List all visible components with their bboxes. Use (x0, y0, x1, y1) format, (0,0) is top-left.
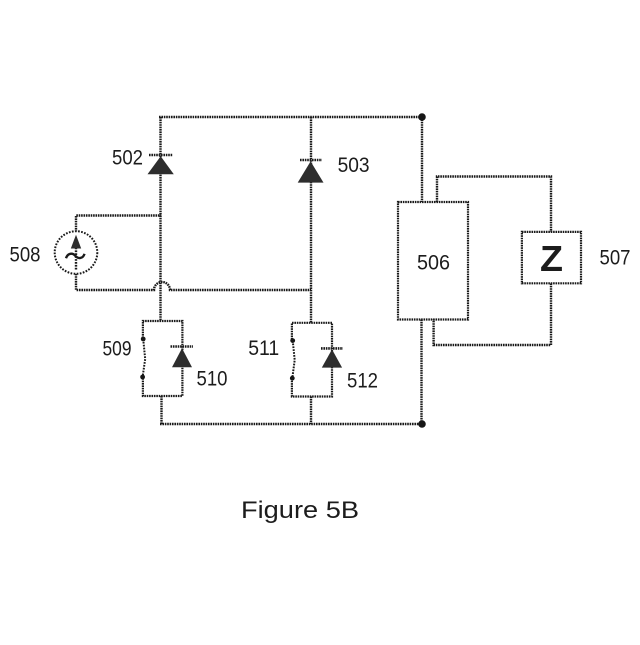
impedance block 507 box (522, 232, 581, 283)
wire right branch lower (box 511 to bottom rail) (310, 397, 312, 425)
diode D510 cathode bar (171, 345, 194, 348)
wire source top (circle top to left branch) (76, 216, 161, 233)
svg-text:Figure 5B: Figure 5B (241, 497, 359, 524)
wire load branch bottom (box 506 to bottom rail) (420, 320, 422, 425)
svg-text:503: 503 (338, 153, 370, 177)
svg-text:512: 512 (347, 369, 378, 393)
source arrow shaft (75, 246, 77, 270)
wire source bottom with hop over left branch (76, 274, 311, 290)
diode D512 triangle (322, 349, 342, 367)
switch S511 lever (292, 341, 294, 379)
diode D503 cathode bar (300, 159, 322, 162)
svg-text:509: 509 (103, 337, 132, 361)
wire load branch top (junction to box 506) (421, 117, 423, 202)
wire bottom rail (160, 423, 422, 425)
svg-text:508: 508 (10, 243, 41, 267)
diode D503 triangle (298, 161, 324, 182)
switch S509 top contact (141, 337, 146, 342)
switch module S509 box (143, 321, 183, 396)
switch S511 bottom contact (290, 376, 295, 381)
diode D510 triangle (172, 348, 192, 367)
switch S511 top contact (290, 338, 295, 343)
wire 507 loop lower (box 507 to 506 bottom) (434, 283, 551, 345)
wire right branch vertical (rail to switch box 511) (310, 117, 312, 323)
svg-text:502: 502 (112, 146, 143, 170)
wire top rail (159, 116, 422, 118)
wire left branch vertical (rail to switch box 509) (159, 117, 161, 321)
svg-text:511: 511 (248, 336, 279, 360)
svg-text:Z: Z (540, 238, 563, 279)
svg-text:506: 506 (417, 251, 450, 275)
diode D502 triangle (148, 156, 174, 174)
svg-text:507: 507 (600, 246, 631, 270)
source U508 circle (55, 231, 98, 274)
diode D502 cathode bar (149, 154, 173, 157)
node junction dot top right (418, 113, 426, 121)
wire 507 loop upper (506 top to box 507) (437, 177, 551, 233)
node junction dot bottom right (418, 420, 426, 428)
switch S509 bottom contact (140, 375, 145, 380)
svg-text:510: 510 (197, 367, 228, 391)
source sine tilde (66, 254, 85, 259)
switch module S511 box (292, 323, 332, 397)
block 506 box (398, 202, 468, 320)
diode D512 cathode bar (321, 347, 343, 350)
wire left branch lower (box 509 to bottom rail) (160, 396, 162, 424)
switch S509 lever (143, 339, 146, 377)
source arrowhead (71, 235, 81, 249)
